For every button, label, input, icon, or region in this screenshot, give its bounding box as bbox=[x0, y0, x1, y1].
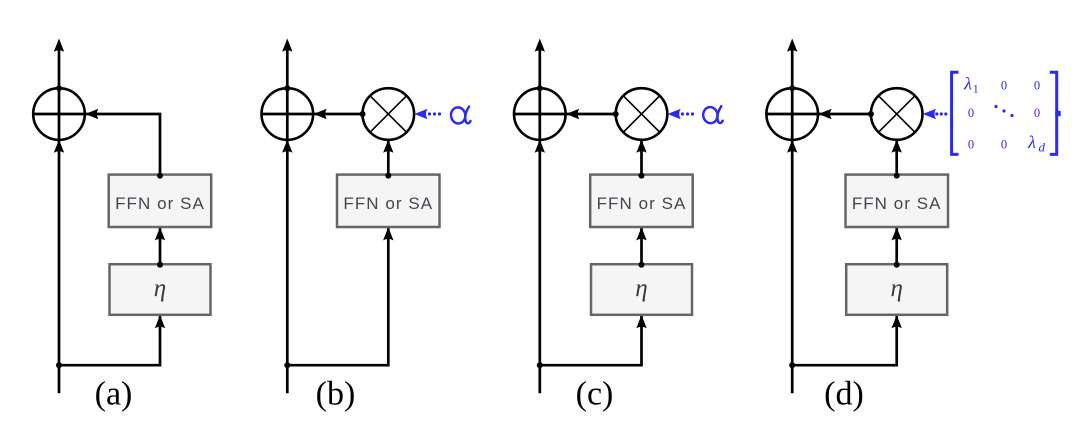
svg-text:(a): (a) bbox=[95, 376, 133, 413]
svg-text:0: 0 bbox=[1001, 79, 1007, 93]
svg-text:FFN or SA: FFN or SA bbox=[852, 194, 942, 213]
svg-text:η: η bbox=[635, 275, 647, 302]
svg-text:λ: λ bbox=[1027, 132, 1036, 152]
svg-text:FFN or SA: FFN or SA bbox=[343, 194, 433, 213]
svg-text:1: 1 bbox=[973, 81, 979, 95]
svg-text:η: η bbox=[890, 275, 902, 302]
svg-text:0: 0 bbox=[1034, 79, 1040, 93]
svg-text:FFN or SA: FFN or SA bbox=[115, 194, 205, 213]
svg-text:0: 0 bbox=[968, 106, 974, 120]
svg-text:0: 0 bbox=[1034, 106, 1040, 120]
svg-text:(d): (d) bbox=[824, 376, 864, 413]
svg-text:(c): (c) bbox=[576, 376, 614, 413]
svg-text:0: 0 bbox=[968, 138, 974, 152]
svg-text:η: η bbox=[154, 275, 166, 302]
svg-text:(b): (b) bbox=[316, 376, 356, 413]
svg-text:d: d bbox=[1039, 139, 1046, 154]
svg-text:FFN or SA: FFN or SA bbox=[597, 194, 687, 213]
svg-text:0: 0 bbox=[1001, 138, 1007, 152]
svg-text:λ: λ bbox=[963, 74, 972, 94]
